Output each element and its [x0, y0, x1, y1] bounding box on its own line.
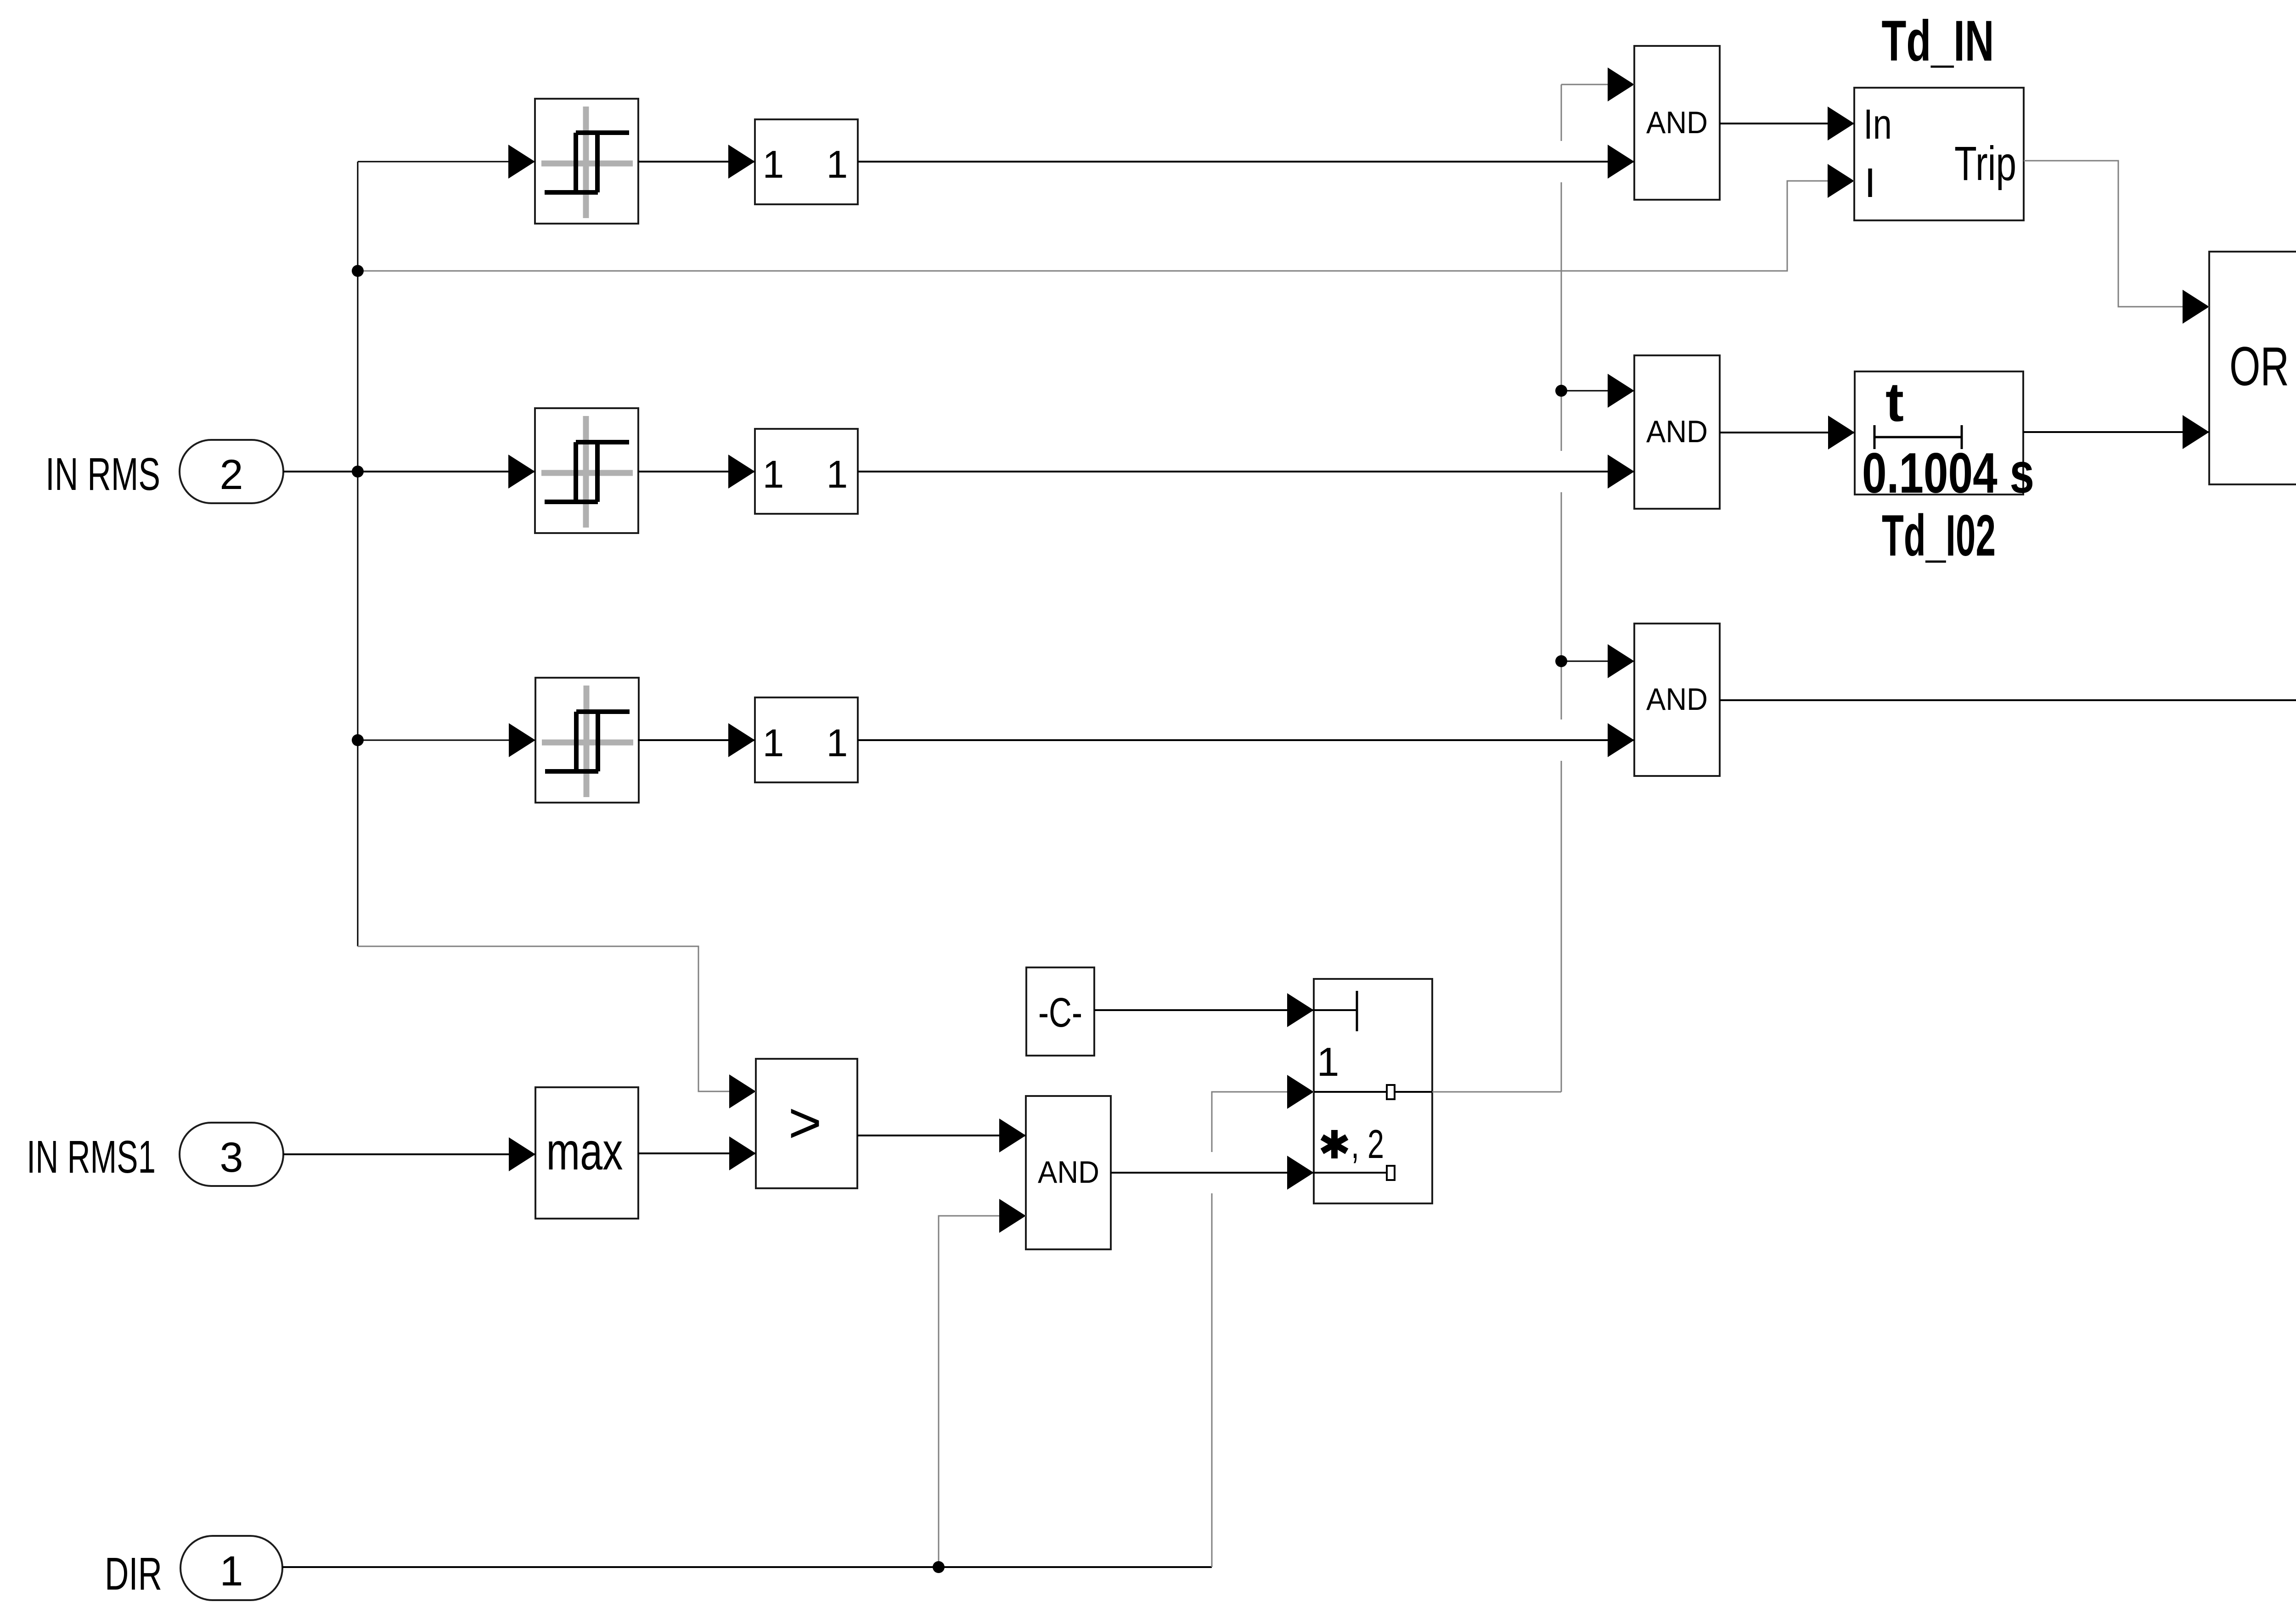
svg-text:1: 1	[827, 453, 848, 496]
svg-text:>: >	[788, 1091, 822, 1155]
svg-text:Td_IN: Td_IN	[1882, 9, 1994, 73]
svg-text:max: max	[546, 1122, 623, 1181]
svg-text:t: t	[1885, 371, 1904, 433]
svg-text:1: 1	[827, 721, 848, 764]
svg-text:-C-: -C-	[1038, 990, 1082, 1036]
svg-text:1: 1	[827, 143, 848, 186]
svg-text:1: 1	[763, 143, 784, 186]
svg-text:IN RMS1: IN RMS1	[27, 1131, 156, 1183]
svg-text:DIR: DIR	[105, 1548, 162, 1600]
svg-text:0.1004 s: 0.1004 s	[1862, 442, 2034, 505]
svg-text:1: 1	[219, 1548, 243, 1595]
svg-text:In: In	[1863, 101, 1892, 148]
svg-text:I: I	[1864, 160, 1876, 206]
svg-text:Trip: Trip	[1954, 137, 2016, 191]
svg-text:OR: OR	[2229, 336, 2289, 397]
svg-text:, 2: , 2	[1351, 1121, 1384, 1167]
svg-text:AND: AND	[1646, 682, 1708, 717]
svg-text:1: 1	[1317, 1039, 1339, 1085]
svg-text:1: 1	[763, 721, 784, 764]
svg-text:IN RMS: IN RMS	[45, 449, 160, 500]
svg-text:Td_I02: Td_I02	[1882, 503, 1996, 568]
svg-text:1: 1	[763, 453, 784, 496]
svg-text:AND: AND	[1646, 105, 1708, 140]
svg-text:2: 2	[219, 451, 243, 498]
svg-text:AND: AND	[1038, 1155, 1099, 1190]
svg-text:AND: AND	[1646, 414, 1708, 449]
svg-text:3: 3	[219, 1134, 243, 1181]
